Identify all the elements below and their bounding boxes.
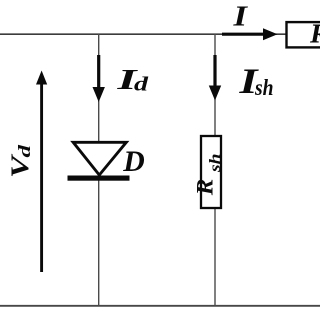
wire : top bus from left edge to Rs box: [0, 33, 286, 35]
current arrow Id (diode current): [93, 55, 105, 102]
wire : diode branch lower segment: [98, 179, 100, 306]
svg-text:sh: sh: [254, 75, 273, 100]
wire : bottom bus across full width: [0, 305, 320, 307]
svg-text:d: d: [15, 144, 34, 158]
wire : shunt branch upper segment: [214, 34, 216, 136]
svg-text:I: I: [232, 0, 249, 32]
svg-text:D: D: [122, 145, 144, 178]
diode D cathode bar: [68, 176, 130, 181]
voltage arrow Vd (pointing up): [36, 71, 47, 273]
wire : shunt branch lower segment: [214, 208, 216, 306]
current arrow I (output current): [222, 28, 278, 40]
svg-text:R: R: [192, 179, 217, 197]
current arrow Ish (shunt current): [209, 55, 221, 101]
svg-text:d: d: [134, 73, 149, 95]
wire : diode branch upper segment: [98, 34, 100, 142]
resistor Rsh box: [201, 136, 221, 208]
diode D triangle (anode): [73, 142, 126, 175]
resistor Rs box (cut at right edge): [287, 22, 320, 47]
svg-text:R: R: [309, 18, 320, 49]
svg-text:sh: sh: [207, 153, 224, 173]
